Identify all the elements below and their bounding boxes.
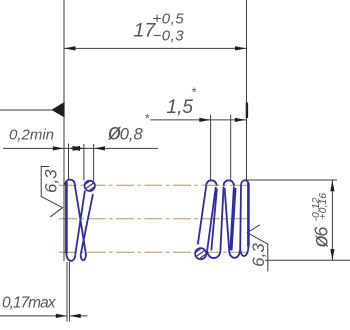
svg-text:6,3: 6,3	[42, 169, 61, 193]
svg-text:+0,5: +0,5	[153, 11, 185, 28]
svg-text:ø6: ø6	[310, 226, 333, 248]
svg-text:−0,3: −0,3	[153, 28, 185, 45]
svg-text:6,3: 6,3	[249, 243, 268, 267]
svg-text:1,5: 1,5	[167, 97, 194, 118]
svg-text:-0,12: -0,12	[310, 197, 322, 221]
svg-text:*: *	[145, 112, 150, 126]
svg-text:0,17max: 0,17max	[2, 295, 57, 312]
svg-text:0,2min: 0,2min	[9, 127, 54, 144]
